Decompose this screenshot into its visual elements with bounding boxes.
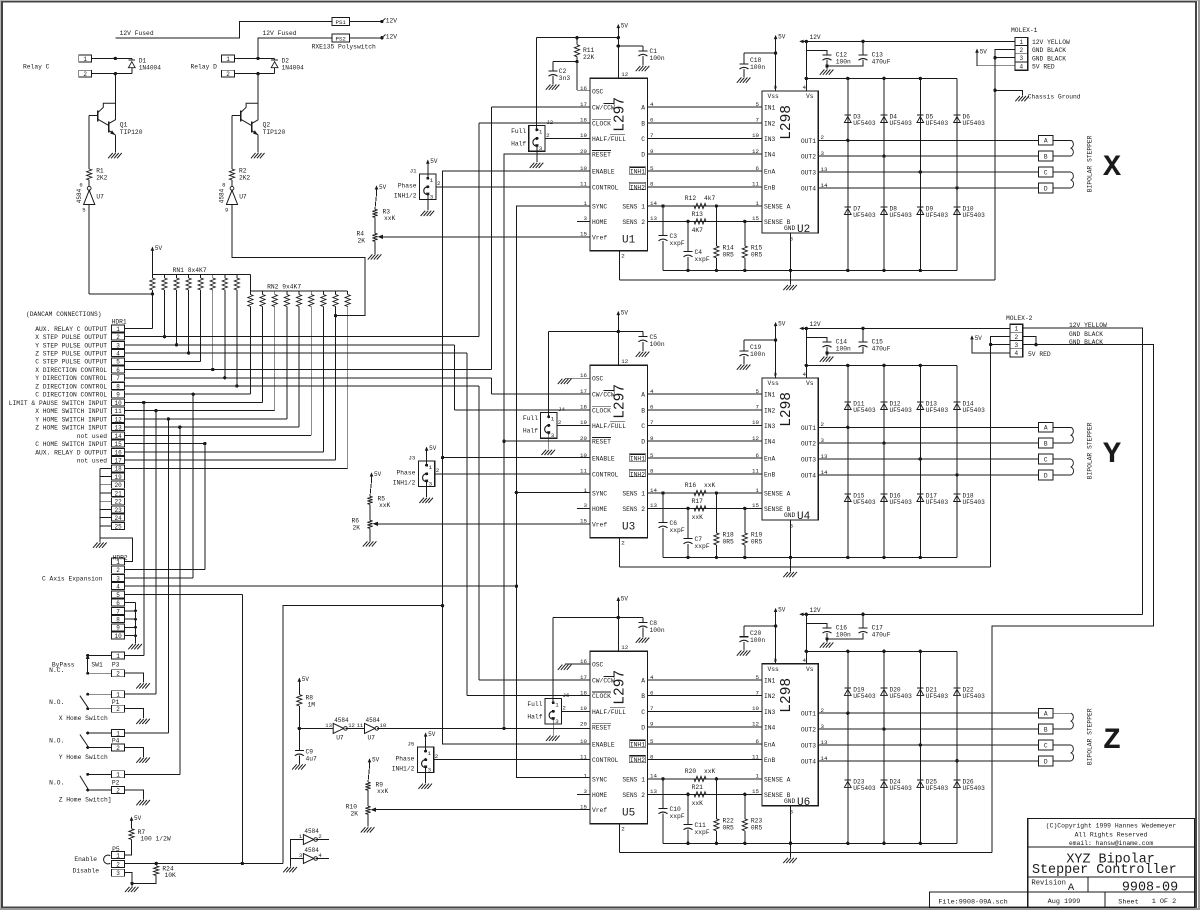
svg-text:AUX. RELAY C OUTPUT: AUX. RELAY C OUTPUT bbox=[35, 326, 107, 333]
svg-text:3: 3 bbox=[428, 766, 432, 773]
wire RN2-r9 drop to pin18 row bbox=[347, 307, 349, 469]
svg-text:20: 20 bbox=[580, 148, 587, 155]
diode D9 UF5403 bbox=[917, 206, 924, 208]
wire Z CLOCK entry bbox=[467, 695, 590, 697]
svg-text:ENABLE: ENABLE bbox=[592, 456, 615, 463]
wire X OUT1 to terminal bbox=[818, 139, 1038, 141]
svg-text:J6: J6 bbox=[563, 692, 570, 699]
svg-text:CW/CCW: CW/CCW bbox=[592, 392, 615, 399]
wire PS1 left bbox=[115, 22, 332, 39]
svg-text:OSC: OSC bbox=[592, 376, 604, 383]
ground (P2) bbox=[136, 800, 141, 805]
power flag 5V (R5) bbox=[371, 473, 373, 481]
svg-text:9: 9 bbox=[225, 207, 228, 214]
svg-text:5V: 5V bbox=[778, 320, 786, 327]
wire Y OUT4 to terminal bbox=[818, 474, 1038, 476]
wire spare b output stub bbox=[316, 858, 329, 860]
wire RN2-r8 drop to pin17 row bbox=[335, 307, 337, 461]
ground (Z section) bbox=[790, 853, 792, 858]
diode D26 UF5403 bbox=[954, 779, 961, 781]
wire RN2-r7 drop to pin16 row bbox=[322, 307, 324, 452]
resistor R21 xxK bbox=[694, 792, 706, 797]
svg-text:L297: L297 bbox=[613, 670, 629, 705]
svg-text:IN3: IN3 bbox=[764, 136, 776, 143]
connector Relay C pin 2 bbox=[79, 70, 92, 77]
wire HDR1 pins 18-25 ground bracket bbox=[100, 467, 111, 469]
svg-text:SYNC: SYNC bbox=[592, 204, 607, 211]
svg-text:CONTROL: CONTROL bbox=[592, 471, 619, 478]
wire 12V fused to Relay D collector bbox=[257, 74, 259, 107]
svg-text:3n3: 3n3 bbox=[559, 75, 571, 82]
transistor Q1 TIP120 (darlington) bbox=[97, 111, 99, 122]
connector HDR2 pin 10 bbox=[112, 632, 125, 639]
svg-text:P5: P5 bbox=[112, 846, 120, 853]
svg-text:2K2: 2K2 bbox=[239, 175, 250, 182]
wire Y ENABLE stub bbox=[443, 457, 590, 459]
svg-text:13: 13 bbox=[325, 722, 332, 729]
connector terminal Y-D bbox=[1039, 470, 1053, 480]
svg-text:IN1: IN1 bbox=[764, 678, 776, 685]
svg-text:J2: J2 bbox=[546, 119, 553, 126]
wire RN2-r6 drop to pin14 row bbox=[310, 307, 312, 436]
diode D8 UF5403 bbox=[881, 206, 888, 208]
svg-text:Z STEP PULSE OUTPUT: Z STEP PULSE OUTPUT bbox=[35, 350, 107, 357]
svg-text:CW/CCW: CW/CCW bbox=[592, 105, 615, 112]
svg-text:12: 12 bbox=[621, 358, 628, 365]
diode D16 UF5403 bbox=[881, 493, 888, 495]
resistor RN2-2 bbox=[262, 291, 264, 295]
svg-text:Y Home Switch: Y Home Switch bbox=[59, 754, 108, 761]
svg-text:HOME: HOME bbox=[592, 219, 607, 226]
svg-text:IN4: IN4 bbox=[764, 152, 776, 159]
svg-text:HOME: HOME bbox=[592, 792, 607, 799]
connector HDR1 pin 15 bbox=[112, 440, 125, 447]
svg-text:CLOCK: CLOCK bbox=[592, 693, 611, 700]
svg-text:3: 3 bbox=[1019, 55, 1023, 62]
svg-text:LIMIT & PAUSE SWITCH INPUT: LIMIT & PAUSE SWITCH INPUT bbox=[9, 400, 107, 407]
connector P5 pin 1 bbox=[112, 852, 125, 859]
ground (C16) bbox=[826, 639, 828, 642]
diode D17 UF5403 bbox=[917, 493, 924, 495]
connector HDR2 pin 6 bbox=[112, 599, 125, 606]
wire J1 pin3 to ground bbox=[427, 200, 429, 211]
wire R2 to inverter U7 bbox=[231, 180, 233, 187]
resistor R24 10K bbox=[155, 863, 157, 866]
wire Relay C pin2 row bbox=[92, 73, 132, 75]
ground (C1) bbox=[636, 66, 641, 71]
wire HDR1 pin 16 row bbox=[125, 451, 324, 453]
svg-text:1: 1 bbox=[584, 487, 588, 494]
connector HDR1 pin 16 bbox=[112, 448, 125, 455]
wire J2 pin3 to ground bbox=[536, 151, 538, 162]
wire Y OUT1 to terminal bbox=[818, 426, 1038, 428]
power flag 5V (R9) bbox=[369, 759, 371, 767]
switch contacts P4 bbox=[99, 732, 112, 734]
svg-text:2: 2 bbox=[436, 467, 440, 474]
node 12V (PS1) bbox=[380, 20, 383, 23]
ground (C20) bbox=[737, 650, 742, 655]
svg-text:24: 24 bbox=[114, 515, 122, 522]
wire Y RESET stub bbox=[504, 440, 590, 442]
wire J4 pin3 to ground bbox=[548, 438, 550, 449]
svg-text:UF5403: UF5403 bbox=[853, 693, 876, 700]
svg-text:SENSE A: SENSE A bbox=[764, 204, 791, 211]
wire Z 12V to Vs bbox=[805, 614, 807, 651]
svg-text:Half: Half bbox=[523, 428, 538, 435]
svg-text:OUT4: OUT4 bbox=[801, 759, 816, 766]
svg-text:U2: U2 bbox=[797, 224, 810, 236]
svg-text:1N4004: 1N4004 bbox=[139, 65, 162, 72]
svg-text:D2: D2 bbox=[282, 58, 290, 65]
power flag 5V (R7) bbox=[131, 818, 133, 826]
ground (Q1 emitter) bbox=[108, 153, 113, 158]
svg-text:D: D bbox=[641, 152, 645, 159]
svg-text:C14: C14 bbox=[836, 339, 848, 346]
power flag 5V (MOLEX-1) bbox=[976, 50, 978, 58]
wire Y 12V rail bbox=[801, 327, 1011, 329]
svg-text:UF5403: UF5403 bbox=[890, 693, 913, 700]
connector HDR1 pin 10 bbox=[112, 399, 125, 406]
ground (C19) bbox=[737, 365, 742, 370]
wire RN2-r5 drop to pin13 row bbox=[298, 307, 300, 428]
svg-text:17: 17 bbox=[580, 388, 587, 395]
svg-text:OUT3: OUT3 bbox=[801, 170, 816, 177]
svg-text:Disable: Disable bbox=[73, 867, 100, 874]
ground (P1) bbox=[136, 719, 141, 724]
svg-text:xxK: xxK bbox=[704, 482, 716, 489]
wire R24 bottom to P5 pin3 net bbox=[132, 876, 156, 884]
svg-text:1: 1 bbox=[555, 702, 559, 709]
wire HDR1 pin 4 row bbox=[125, 352, 467, 354]
svg-text:TIP120: TIP120 bbox=[120, 129, 143, 136]
svg-text:Vss: Vss bbox=[768, 380, 780, 387]
svg-text:IN4: IN4 bbox=[764, 724, 776, 731]
svg-text:Relay C: Relay C bbox=[23, 64, 50, 71]
svg-text:U7: U7 bbox=[336, 734, 344, 741]
svg-text:8: 8 bbox=[116, 383, 120, 390]
svg-text:7: 7 bbox=[116, 608, 120, 615]
wire MOLEX-2 GND pins bbox=[991, 336, 1010, 344]
svg-text:0R5: 0R5 bbox=[723, 251, 735, 258]
svg-text:10: 10 bbox=[114, 633, 122, 640]
svg-text:IN2: IN2 bbox=[764, 407, 776, 414]
wire R7 to P5 pin1 bbox=[124, 840, 132, 856]
svg-text:C16: C16 bbox=[836, 625, 848, 632]
svg-text:OSC: OSC bbox=[592, 662, 604, 669]
svg-text:100n: 100n bbox=[750, 351, 765, 358]
svg-text:L297: L297 bbox=[613, 384, 629, 419]
polyswitch PS2 bbox=[332, 34, 350, 42]
svg-text:12V YELLOW: 12V YELLOW bbox=[1032, 39, 1070, 46]
svg-text:12: 12 bbox=[621, 71, 628, 78]
power flag 5V (J3) bbox=[426, 448, 428, 456]
svg-text:B: B bbox=[641, 120, 645, 127]
svg-text:U7: U7 bbox=[368, 734, 376, 741]
svg-text:All Rights Reserved: All Rights Reserved bbox=[1075, 831, 1148, 838]
svg-text:R20: R20 bbox=[685, 768, 697, 775]
wire X clamp column 1 bbox=[847, 78, 849, 270]
svg-text:5V: 5V bbox=[975, 335, 983, 342]
svg-text:BIPOLAR STEPPER: BIPOLAR STEPPER bbox=[1087, 708, 1094, 765]
resistor network RN1 bus bbox=[152, 273, 250, 275]
svg-text:UF5403: UF5403 bbox=[890, 785, 913, 792]
power flag 5V (J5) bbox=[425, 733, 427, 741]
capacitor C9 4u7 bbox=[298, 728, 300, 750]
svg-text:UF5403: UF5403 bbox=[890, 212, 913, 219]
svg-text:UF5403: UF5403 bbox=[926, 693, 949, 700]
svg-text:9908-09: 9908-09 bbox=[1122, 880, 1178, 895]
op-amp U5 L297 body bbox=[590, 651, 648, 823]
svg-text:C12: C12 bbox=[836, 52, 848, 59]
svg-text:C STEP PULSE OUTPUT: C STEP PULSE OUTPUT bbox=[35, 359, 107, 366]
wire Z CW/CCW riser (HDR1 pin8) bbox=[478, 386, 480, 680]
svg-text:UF5403: UF5403 bbox=[963, 693, 986, 700]
svg-text:3: 3 bbox=[555, 718, 559, 725]
connector Relay D pin 1 bbox=[222, 55, 235, 62]
svg-text:Full: Full bbox=[527, 701, 542, 708]
wire X clamp column 4 bbox=[956, 78, 958, 270]
svg-text:17: 17 bbox=[114, 457, 122, 464]
svg-text:2: 2 bbox=[226, 71, 230, 78]
svg-text:xxpF: xxpF bbox=[695, 256, 710, 263]
svg-text:Z Home Switch]: Z Home Switch] bbox=[59, 797, 112, 804]
ground (C8) bbox=[636, 638, 641, 643]
wire Q1 emitter to ground bbox=[114, 135, 116, 153]
wire Z phase line 6 bbox=[648, 759, 763, 761]
wire Relay D pin2 row bbox=[235, 73, 275, 75]
svg-text:1: 1 bbox=[584, 773, 588, 780]
resistor R16 xxK bbox=[694, 490, 706, 495]
svg-text:Phase: Phase bbox=[398, 183, 417, 190]
svg-text:5V: 5V bbox=[980, 49, 988, 56]
svg-text:A: A bbox=[641, 678, 645, 685]
svg-text:UF5403: UF5403 bbox=[853, 120, 876, 127]
svg-text:14: 14 bbox=[114, 433, 122, 440]
svg-text:Z DIRECTION CONTROL: Z DIRECTION CONTROL bbox=[35, 383, 107, 390]
svg-text:1: 1 bbox=[429, 464, 433, 471]
svg-text:J4: J4 bbox=[558, 406, 565, 413]
svg-text:SENSE A: SENSE A bbox=[764, 776, 791, 783]
wire HDR1 pin 7 row bbox=[125, 377, 492, 379]
svg-text:C: C bbox=[641, 709, 645, 716]
svg-text:Aug 1999: Aug 1999 bbox=[1048, 898, 1081, 906]
svg-text:C: C bbox=[641, 136, 645, 143]
svg-text:P4: P4 bbox=[112, 738, 120, 745]
wire X ground rail bbox=[619, 279, 995, 281]
wire base to R1 bbox=[88, 115, 90, 169]
wire relay D inverter input route to RN2-r8 bbox=[232, 205, 365, 316]
svg-text:16: 16 bbox=[114, 449, 122, 456]
svg-text:INH1/2: INH1/2 bbox=[392, 765, 415, 772]
title block frame bbox=[1028, 819, 1195, 908]
ground (P5) bbox=[125, 887, 130, 892]
wire X sense ground rail bbox=[663, 269, 957, 271]
connector HDR1 pin 3 bbox=[112, 341, 125, 348]
svg-text:11: 11 bbox=[357, 722, 364, 729]
svg-text:6: 6 bbox=[79, 182, 82, 189]
svg-text:RN1 8x4K7: RN1 8x4K7 bbox=[173, 267, 207, 274]
svg-text:2: 2 bbox=[558, 419, 562, 426]
svg-text:C9: C9 bbox=[306, 749, 314, 756]
connector HDR1 pin 7 bbox=[112, 374, 125, 381]
svg-text:4584: 4584 bbox=[334, 717, 349, 724]
svg-text:R8: R8 bbox=[306, 695, 314, 702]
svg-text:18: 18 bbox=[580, 117, 587, 124]
svg-text:5: 5 bbox=[116, 592, 120, 599]
diode D12 UF5403 bbox=[881, 401, 888, 403]
diode D2 1N4004 bbox=[271, 59, 278, 61]
wire RN1-r8 drop to pin8 row bbox=[236, 290, 238, 386]
wire 5V feed to J4 bbox=[549, 331, 643, 333]
inductor X stepper coil C-D bbox=[1053, 171, 1071, 173]
svg-text:3: 3 bbox=[299, 852, 302, 859]
svg-text:5V: 5V bbox=[621, 309, 629, 316]
resistor RN2-4 bbox=[286, 291, 288, 295]
wire Vref (Z) bbox=[376, 809, 590, 811]
svg-text:MOLEX-2: MOLEX-2 bbox=[1006, 315, 1033, 322]
switch contacts P1 bbox=[99, 693, 112, 695]
svg-text:12V Fused: 12V Fused bbox=[120, 30, 154, 37]
svg-text:IN3: IN3 bbox=[764, 423, 776, 430]
wire X 12V to Vs bbox=[805, 41, 807, 78]
svg-text:R15: R15 bbox=[751, 244, 763, 251]
svg-text:(C)Copyright 1999 Hannes Wede: (C)Copyright 1999 Hannes Wedemeyer bbox=[1046, 823, 1177, 830]
svg-text:HOME: HOME bbox=[592, 506, 607, 513]
ground (P3) bbox=[136, 683, 141, 688]
svg-text:xxK: xxK bbox=[692, 514, 704, 521]
wire HDR2 pin2 riser (HDR1 pin15) bbox=[203, 442, 206, 445]
wire between inverters bbox=[346, 727, 365, 729]
svg-text:File:9908-09A.sch: File:9908-09A.sch bbox=[938, 899, 1007, 907]
inverter U7 4584 (reset a) bbox=[333, 723, 344, 733]
connector HDR2 pin 1 bbox=[112, 558, 125, 565]
polyswitch PS1 bbox=[332, 18, 350, 26]
wire HDR1 pin 6 row bbox=[125, 369, 492, 371]
node chassis ground tap bbox=[993, 89, 996, 92]
capacitor C18 100n bbox=[744, 52, 776, 54]
svg-text:2: 2 bbox=[116, 706, 120, 713]
svg-text:4584: 4584 bbox=[304, 828, 319, 835]
op-amp U3 L297 body bbox=[590, 365, 648, 537]
inverter U7 4584 (Relay D driver) bbox=[230, 186, 234, 190]
svg-text:C7: C7 bbox=[695, 536, 703, 543]
connector HDR2 pin 5 bbox=[112, 591, 125, 598]
wire J3 pin2 to CONTROL bbox=[435, 473, 590, 475]
svg-text:X HOME SWITCH INPUT: X HOME SWITCH INPUT bbox=[35, 408, 107, 415]
inductor Y stepper coil A-B bbox=[1053, 426, 1071, 428]
svg-text:9: 9 bbox=[116, 392, 120, 399]
inductor Z stepper coil A-B bbox=[1053, 712, 1071, 714]
switch contacts P2 bbox=[99, 773, 112, 775]
resistor RN2-3 bbox=[274, 291, 276, 295]
svg-text:L298: L298 bbox=[779, 392, 795, 427]
op-amp U1 L297 body bbox=[590, 78, 648, 250]
svg-text:R1: R1 bbox=[96, 167, 104, 174]
wire Y OSC ground stub bbox=[565, 377, 590, 379]
inductor Z stepper coil C-D bbox=[1053, 744, 1071, 746]
diode D3 UF5403 bbox=[844, 114, 851, 116]
svg-text:1: 1 bbox=[116, 653, 120, 660]
svg-text:1: 1 bbox=[430, 177, 434, 184]
ground (Z OSC) bbox=[558, 665, 563, 670]
svg-text:2: 2 bbox=[621, 539, 625, 546]
svg-text:UF5403: UF5403 bbox=[926, 120, 949, 127]
svg-text:OUT3: OUT3 bbox=[801, 457, 816, 464]
svg-text:12V: 12V bbox=[386, 17, 397, 24]
capacitor C1 100n bbox=[618, 45, 643, 47]
svg-text:N.C.: N.C. bbox=[49, 667, 64, 674]
svg-text:B: B bbox=[1044, 726, 1048, 733]
wire HDR2 pins 6-10 bracket bbox=[125, 602, 136, 604]
wire Z 12V rail bbox=[801, 613, 1143, 615]
svg-text:R13: R13 bbox=[692, 211, 704, 218]
connector HDR1 pin 17 bbox=[112, 457, 125, 464]
wire J6 pin2 to HALF/FULL bbox=[561, 710, 590, 712]
resistor R23 0R5 bbox=[743, 793, 746, 796]
svg-text:100n: 100n bbox=[750, 637, 765, 644]
diode D1 1N4004 bbox=[128, 59, 135, 61]
wire X OUT4 to terminal bbox=[818, 187, 1038, 189]
svg-text:2: 2 bbox=[116, 671, 120, 678]
svg-text:xxpF: xxpF bbox=[695, 829, 710, 836]
svg-text:P2: P2 bbox=[112, 779, 120, 786]
wire RN1-r6 drop to pin6 row bbox=[212, 290, 214, 370]
svg-text:UF5403: UF5403 bbox=[853, 212, 876, 219]
svg-text:12V: 12V bbox=[810, 34, 821, 41]
wire P2 pin2 to ground bbox=[125, 790, 144, 800]
ground (Y section) bbox=[790, 567, 792, 572]
wire Y phase line 4 bbox=[648, 440, 763, 442]
svg-text:SENS 2: SENS 2 bbox=[622, 219, 645, 226]
wire HDR1 pin 1 row bbox=[125, 327, 153, 329]
svg-text:CLOCK: CLOCK bbox=[592, 120, 611, 127]
node 12V (PS2) bbox=[380, 36, 383, 39]
svg-text:R22: R22 bbox=[723, 817, 735, 824]
wire J6 pin3 to ground bbox=[552, 724, 554, 735]
wire P3 pin2 to ground bbox=[125, 673, 144, 683]
wire Y OUT2 to terminal bbox=[818, 442, 1038, 444]
svg-text:RESET: RESET bbox=[592, 439, 611, 446]
wire Relay D pin1 row bbox=[235, 57, 275, 59]
resistor RN2-5 bbox=[298, 291, 300, 295]
wire RN2-r4 drop to pin12 row bbox=[286, 307, 288, 419]
svg-text:5V: 5V bbox=[379, 184, 387, 191]
svg-text:C13: C13 bbox=[872, 52, 884, 59]
wire HDR2 pin3 riser (HDR1 pin9) bbox=[192, 394, 194, 578]
connector P5 pin 2 bbox=[112, 860, 125, 867]
wire Y SYNC stub bbox=[516, 492, 590, 494]
ground (C12) bbox=[826, 66, 828, 69]
svg-text:C5: C5 bbox=[650, 334, 658, 341]
wire R8 to reset node bbox=[298, 706, 300, 728]
svg-text:1: 1 bbox=[226, 56, 230, 63]
wire RN2-r1 drop to pin9 row bbox=[249, 307, 251, 395]
svg-text:100n: 100n bbox=[836, 632, 851, 639]
svg-text:9: 9 bbox=[116, 625, 120, 632]
svg-text:1: 1 bbox=[539, 129, 543, 136]
svg-text:2: 2 bbox=[116, 787, 120, 794]
wire J2 pin2 to HALF/FULL bbox=[545, 137, 590, 139]
capacitor C10 xxpF bbox=[661, 777, 664, 780]
svg-text:4584: 4584 bbox=[304, 847, 319, 854]
wire RN2-r2 drop to pin10 row bbox=[262, 307, 264, 403]
svg-text:GND BLACK: GND BLACK bbox=[1032, 55, 1066, 62]
svg-text:2: 2 bbox=[621, 252, 625, 259]
svg-text:xxK: xxK bbox=[377, 788, 389, 795]
connector HDR1 pin 24 bbox=[112, 514, 125, 521]
wire HDR1 pin 15 row bbox=[125, 443, 205, 445]
svg-text:4: 4 bbox=[116, 350, 120, 357]
